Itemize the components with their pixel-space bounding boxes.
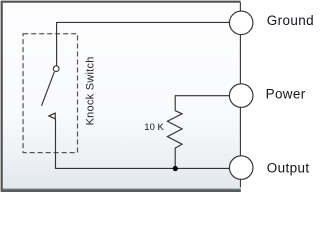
svg-text:Output: Output [267,160,310,175]
svg-text:Power: Power [266,87,306,102]
svg-text:10 K: 10 K [144,122,164,133]
svg-text:Knock Switch: Knock Switch [85,56,97,125]
svg-text:Ground: Ground [267,13,314,28]
